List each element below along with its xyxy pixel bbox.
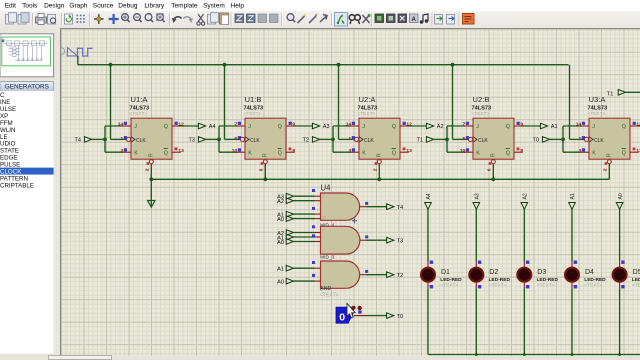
svg-text:3: 3 — [120, 148, 123, 154]
svg-text:Q: Q — [164, 150, 168, 156]
LED D3 LED-RED — [517, 268, 531, 282]
pin mark — [312, 225, 315, 228]
pin 8 Qbar — [289, 148, 296, 155]
wire A1 to gate — [293, 213, 315, 215]
pin stub — [619, 282, 621, 288]
svg-text:CLK: CLK — [136, 138, 146, 144]
wire R pin to reset bus — [492, 164, 494, 180]
pin 1 CLK — [120, 136, 127, 142]
AND gate MID_4 3-input — [313, 226, 368, 254]
wire LED D2 to bottom bus — [475, 288, 477, 354]
svg-text:T0: T0 — [397, 314, 404, 320]
svg-text:Q: Q — [278, 150, 282, 156]
svg-text:A2: A2 — [437, 124, 444, 130]
svg-text:10: 10 — [460, 148, 466, 154]
wire to K pin — [105, 151, 123, 153]
svg-text:R: R — [262, 153, 268, 157]
pin 10 K — [460, 148, 469, 154]
svg-text:<TEXT>: <TEXT> — [130, 111, 148, 117]
svg-text:Graph: Graph — [69, 3, 87, 10]
pin 13 Qbar — [633, 148, 640, 155]
pin 1 CLK — [348, 136, 355, 142]
svg-text:A2: A2 — [277, 199, 284, 205]
AND gate U4 4-input — [313, 193, 367, 220]
pin 14 J — [346, 122, 355, 128]
junction clock bus node 2 — [223, 63, 227, 67]
toolbar icon redo — [184, 16, 194, 22]
pin stub — [427, 261, 429, 267]
wire A4 terminal to LED D1 — [427, 209, 429, 261]
node A1 gate input terminal — [277, 265, 293, 272]
junction bottom bus — [618, 353, 621, 356]
toolbar icon wire autorouter active — [335, 12, 348, 26]
svg-text:Q: Q — [164, 124, 168, 130]
svg-text:A0: A0 — [618, 193, 624, 199]
wire T4 to J/K tie — [91, 138, 105, 140]
selected item DCLOCK — [0, 168, 54, 175]
svg-text:A3: A3 — [475, 193, 481, 199]
pin 3 K — [120, 148, 127, 154]
toolbar icon new design — [6, 12, 17, 23]
toolbar icon open design — [18, 12, 29, 23]
toolbar icon undo — [172, 16, 182, 22]
svg-text:14: 14 — [118, 122, 124, 128]
pin marks — [621, 261, 624, 264]
toolbar icon block move — [247, 14, 256, 23]
junction bottom bus — [523, 353, 526, 356]
svg-text:6: 6 — [259, 168, 265, 171]
pin 9 Q — [289, 122, 296, 128]
pin mark — [365, 270, 368, 273]
logic state 0 — [336, 307, 354, 323]
wire clock drop to U1:B CLK — [224, 65, 226, 140]
svg-text:<TEXT>: <TEXT> — [489, 283, 507, 289]
wire A3 to gate — [293, 195, 315, 197]
junction bottom bus — [475, 353, 478, 356]
toolbar icon cut — [197, 14, 205, 25]
wire Q to A4 terminal — [181, 125, 199, 127]
node T0 output terminal — [387, 313, 404, 320]
node T2 output terminal — [387, 272, 404, 279]
wire bottom bus — [428, 354, 640, 356]
pin mark — [312, 189, 315, 192]
node T4 input terminal — [74, 137, 91, 144]
svg-text:Help: Help — [231, 3, 245, 10]
toolbar icon notes — [420, 14, 429, 24]
pin 13 Qbar — [175, 148, 185, 155]
svg-text:Library: Library — [144, 3, 165, 10]
toolbar icon make device — [298, 13, 307, 23]
toolbar icon netlist to ARES — [463, 13, 475, 24]
wire clock drop to U1:A CLK — [110, 65, 112, 140]
toolbar icon origin — [94, 14, 103, 23]
wire clock generator to clock bus — [77, 56, 79, 65]
toolbar icon design explorer — [375, 14, 384, 23]
wire T2 to J/K tie — [319, 138, 333, 140]
svg-text:R: R — [606, 153, 612, 157]
svg-text:10: 10 — [232, 148, 238, 154]
toolbar icon pan — [109, 14, 119, 24]
pin stub — [523, 261, 525, 267]
toolbar icon property assignment — [363, 14, 371, 23]
toolbar icon block copy — [235, 14, 244, 23]
wire gate output to T4 — [367, 206, 387, 208]
svg-text:Tools: Tools — [22, 3, 38, 10]
wire ground drop — [150, 179, 152, 200]
svg-text:J: J — [248, 124, 251, 130]
wire to K pin — [563, 151, 581, 153]
node T4 output terminal — [387, 204, 404, 211]
toolbar icon print — [36, 13, 47, 24]
pin 1 CLK — [578, 136, 585, 142]
node T0 input terminal — [532, 137, 549, 144]
toolbar icon zoom in — [122, 13, 130, 21]
wire to J pin — [105, 125, 123, 127]
pin 12 Q — [633, 122, 640, 128]
clock generator CLK symbol — [57, 48, 92, 56]
wire R pin to reset bus — [150, 164, 152, 180]
svg-text:<TEXT>: <TEXT> — [320, 292, 339, 298]
wire T1 to right edge — [625, 91, 640, 93]
node T2 input terminal — [302, 137, 319, 144]
svg-text:LED-RED: LED-RED — [440, 277, 462, 283]
pin 12 Q — [175, 122, 185, 128]
wire LED D5 to bottom bus — [619, 288, 621, 354]
wire A2 terminal to LED D3 — [523, 209, 525, 261]
svg-text:D5: D5 — [633, 269, 640, 276]
svg-text:K: K — [134, 150, 138, 156]
node A0 gate input terminal — [277, 216, 293, 223]
pin 14 J — [118, 122, 127, 128]
toolbar icon refresh — [65, 14, 73, 24]
node A2 terminal — [521, 193, 529, 209]
svg-text:T4: T4 — [397, 205, 404, 211]
svg-text:LED-RED: LED-RED — [489, 277, 511, 283]
svg-text:K: K — [592, 150, 596, 156]
svg-text:5: 5 — [234, 136, 237, 142]
svg-text:74LS73: 74LS73 — [130, 105, 150, 111]
svg-text:T0: T0 — [532, 138, 539, 144]
wire R pin to reset bus — [378, 164, 380, 180]
pin 10 K — [232, 148, 241, 154]
svg-text:0: 0 — [339, 311, 345, 323]
svg-text:13: 13 — [178, 148, 184, 154]
pin 8 Qbar — [517, 148, 524, 155]
svg-text:A1: A1 — [570, 193, 576, 199]
wire R pin to reset bus — [264, 164, 266, 180]
wire to K pin — [447, 151, 465, 153]
node A1 output terminal — [540, 123, 557, 130]
pin mark — [312, 207, 315, 210]
junction J/K tie — [561, 138, 565, 142]
svg-text:Design: Design — [44, 3, 65, 10]
pin marks — [430, 261, 433, 264]
junction clock bus node 4 — [451, 63, 455, 67]
junction J/K tie — [103, 138, 107, 142]
junction reset bus — [377, 177, 381, 181]
wire A0 to gate — [293, 218, 315, 220]
svg-text:LED-RED: LED-RED — [632, 277, 640, 283]
svg-text:System: System — [203, 3, 225, 10]
svg-text:3: 3 — [578, 148, 581, 154]
svg-text:74LS73: 74LS73 — [244, 105, 264, 111]
svg-text:CLK: CLK — [250, 138, 260, 144]
LED D1 LED-RED — [421, 268, 435, 282]
svg-text:CRIPTABLE: CRIPTABLE — [0, 182, 34, 189]
junction J/K tie — [445, 138, 449, 142]
pin mark — [365, 202, 368, 205]
node A1 terminal — [569, 193, 577, 209]
svg-text:U3:A: U3:A — [589, 95, 607, 104]
svg-text:A: A — [412, 17, 417, 23]
toolbar — [0, 11, 640, 29]
wire A0 terminal to LED D5 — [619, 209, 621, 261]
wire to J pin — [563, 125, 581, 127]
flip-flop U2:B 74LS73 — [464, 118, 523, 164]
svg-text:74LS73: 74LS73 — [358, 105, 378, 111]
svg-text:1: 1 — [120, 136, 123, 142]
svg-text:CLK: CLK — [364, 138, 374, 144]
wire A1 to gate — [293, 267, 315, 269]
svg-text:T1: T1 — [607, 92, 614, 98]
node A4 output terminal — [198, 123, 215, 130]
pin 14 J — [576, 122, 585, 128]
svg-text:Template: Template — [171, 3, 198, 10]
svg-text:Q: Q — [392, 150, 396, 156]
wire to J pin — [219, 125, 237, 127]
panel resize box — [48, 355, 112, 360]
toolbar icon decompose — [320, 14, 327, 22]
toolbar icon block rotate — [258, 14, 267, 23]
wire A1 terminal to LED D4 — [571, 209, 573, 261]
node A3 gate input terminal — [277, 193, 293, 200]
node T3 output terminal — [387, 237, 404, 244]
ground — [148, 201, 155, 208]
pin stub — [523, 282, 525, 288]
wire T0 to J/K tie — [549, 138, 563, 140]
toolbar icon copy — [208, 12, 219, 23]
node A3 terminal — [473, 193, 481, 209]
svg-text:D3: D3 — [537, 269, 546, 276]
svg-text:<TEXT>: <TEXT> — [588, 111, 606, 117]
wire Q to A1 terminal — [523, 125, 541, 127]
junction bottom bus — [571, 353, 574, 356]
wire reset bus — [151, 178, 609, 180]
svg-text:K: K — [248, 150, 252, 156]
mouse cursor — [347, 303, 355, 318]
toolbar icon block delete — [270, 14, 279, 23]
svg-text:D4: D4 — [585, 269, 594, 276]
toolbar icon print area — [48, 14, 56, 24]
svg-text:13: 13 — [406, 148, 412, 154]
wire T3 to J/K tie — [205, 138, 219, 140]
pin mark — [365, 235, 368, 238]
svg-text:J: J — [134, 124, 137, 130]
svg-text:U5: U5 — [321, 215, 327, 220]
svg-text:Q: Q — [622, 124, 626, 130]
node T1 source terminal — [607, 90, 626, 98]
LED D4 LED-RED — [565, 268, 579, 282]
wire J/K tie vertical — [104, 126, 106, 152]
pin stub — [571, 282, 573, 288]
wire gate output to T3 — [367, 239, 387, 241]
flip-flop U2:A 74LS73 — [350, 118, 409, 164]
wire A2 to gate — [293, 232, 315, 234]
pin 13 Qbar — [403, 148, 413, 155]
wire R pin to reset bus — [608, 164, 610, 180]
svg-text:D2: D2 — [489, 269, 498, 276]
svg-text:R: R — [490, 153, 496, 157]
flip-flop U3:A 74LS73 — [580, 118, 639, 164]
wire clock drop to U2:A CLK — [338, 65, 340, 140]
svg-text:J: J — [476, 124, 479, 130]
pin 2 R — [373, 162, 379, 171]
svg-text:T3: T3 — [188, 138, 195, 144]
pin 6 R — [259, 162, 265, 171]
toolbar icon grid — [77, 14, 85, 22]
svg-text:R: R — [148, 153, 154, 157]
svg-text:CLK: CLK — [478, 138, 488, 144]
svg-text:5: 5 — [462, 136, 465, 142]
svg-text:13: 13 — [636, 148, 640, 154]
svg-text:LED-RED: LED-RED — [584, 277, 606, 283]
wire Q to A2 terminal — [409, 125, 427, 127]
pin 12 Q — [403, 122, 413, 128]
flip-flop U1:B 74LS73 — [236, 118, 295, 164]
svg-text:U2:A: U2:A — [359, 95, 377, 104]
junction J/K tie — [331, 138, 335, 142]
node A4 terminal — [425, 193, 433, 209]
svg-text:A0: A0 — [277, 279, 284, 285]
svg-text:Q: Q — [506, 150, 510, 156]
wire LED D3 to bottom bus — [523, 288, 525, 354]
svg-text:Q: Q — [278, 124, 282, 130]
wire A0 to gate — [293, 241, 315, 243]
svg-text:T1: T1 — [416, 138, 423, 144]
LED D5 LED-RED — [613, 268, 627, 282]
wire clock drop to U2:B CLK — [452, 65, 454, 140]
junction reset bus — [263, 177, 267, 181]
node A1 gate input terminal — [277, 234, 293, 241]
node T1 input terminal — [416, 137, 433, 144]
svg-text:T3: T3 — [397, 239, 404, 245]
wire LED D1 to bottom bus — [427, 288, 429, 354]
svg-text:8: 8 — [520, 148, 523, 154]
pin 2 R — [145, 162, 151, 171]
svg-text:14: 14 — [576, 122, 582, 128]
wire J/K tie vertical — [562, 126, 564, 152]
left object selector panel — [0, 28, 60, 360]
svg-text:6: 6 — [487, 168, 493, 171]
svg-text:2: 2 — [373, 168, 379, 171]
svg-text:1: 1 — [348, 136, 351, 142]
wire A1 to gate — [293, 236, 315, 238]
pin 7 J — [234, 122, 241, 128]
svg-text:A1: A1 — [551, 124, 558, 130]
pin 6 R — [487, 162, 493, 171]
node A1 gate input terminal — [277, 211, 293, 218]
svg-text:<TEXT>: <TEXT> — [537, 283, 555, 289]
toolbar icon zoom all — [145, 13, 153, 21]
pin stub — [475, 261, 477, 267]
svg-text:<TEXT>: <TEXT> — [584, 283, 602, 289]
toolbar icon goto sheet — [410, 14, 419, 23]
wire Q to A3 terminal — [295, 125, 313, 127]
svg-text:<TEXT>: <TEXT> — [358, 111, 376, 117]
svg-text:T2: T2 — [302, 138, 309, 144]
node T3 input terminal — [188, 137, 205, 144]
svg-text:T4: T4 — [74, 138, 81, 144]
svg-text:Q: Q — [622, 150, 626, 156]
node A2 gate input terminal — [277, 230, 293, 237]
pin marks — [478, 261, 481, 264]
pin mark — [312, 274, 315, 277]
toolbar icon zoom out — [134, 13, 142, 21]
origin marker U4 — [352, 218, 357, 223]
svg-text:Q: Q — [506, 124, 510, 130]
wire Q to right edge — [639, 125, 640, 127]
wire J/K tie vertical — [332, 126, 334, 152]
svg-text:J: J — [592, 124, 595, 130]
generators header — [0, 82, 54, 91]
svg-text:1: 1 — [578, 136, 581, 142]
wire to K pin — [333, 151, 351, 153]
flip-flop U1:A 74LS73 — [122, 118, 181, 164]
toolbar icon search tag — [349, 14, 360, 23]
junction reset bus at ground — [149, 177, 153, 181]
toolbar icon zoom area — [157, 13, 165, 21]
svg-text:A2: A2 — [523, 193, 529, 199]
node A0 gate input terminal — [277, 278, 293, 285]
svg-text:GENERATORS: GENERATORS — [5, 84, 49, 91]
junction J/K tie — [217, 138, 221, 142]
toolbar icon export netlist — [435, 14, 443, 24]
svg-text:A1: A1 — [277, 267, 284, 273]
wire clock bus — [78, 64, 569, 66]
svg-text:74LS73: 74LS73 — [472, 105, 492, 111]
svg-text:A0: A0 — [277, 217, 284, 223]
node A0 terminal — [616, 193, 624, 209]
wire LED D4 to bottom bus — [571, 288, 573, 354]
pin mark — [312, 234, 315, 237]
wire to J pin — [333, 125, 351, 127]
svg-text:Debug: Debug — [118, 3, 138, 10]
svg-text:<TEXT>: <TEXT> — [632, 283, 640, 289]
svg-text:K: K — [476, 150, 480, 156]
wire to K pin — [219, 151, 237, 153]
wire gate output to T2 — [367, 274, 387, 276]
svg-text:U1:B: U1:B — [245, 95, 262, 104]
svg-text:T2: T2 — [397, 273, 404, 279]
svg-text:Q: Q — [392, 124, 396, 130]
svg-text:7: 7 — [234, 122, 237, 128]
wire J/K tie vertical — [218, 126, 220, 152]
svg-text:A3: A3 — [323, 124, 330, 130]
pin 2 R — [603, 162, 609, 171]
pin 3 K — [578, 148, 585, 154]
pin 5 CLK — [462, 136, 469, 142]
svg-text:J: J — [362, 124, 365, 130]
node A0 gate input terminal — [277, 239, 293, 246]
junction reset bus — [491, 177, 495, 181]
svg-text:U1:A: U1:A — [131, 95, 149, 104]
svg-text:2: 2 — [145, 168, 151, 171]
wire J/K tie vertical — [446, 126, 448, 152]
wire A2 to gate — [293, 200, 315, 202]
svg-text:U2:B: U2:B — [473, 95, 490, 104]
pin mark — [312, 261, 315, 264]
pin 9 Q — [517, 122, 524, 128]
